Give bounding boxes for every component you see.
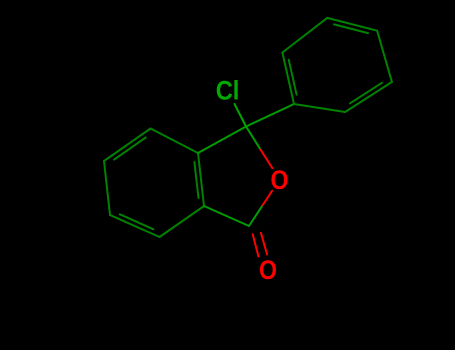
- benzo ring bond C7-C7a: [160, 206, 205, 237]
- phenyl ring bond P5-P0: [294, 104, 345, 112]
- benzo ring double bond inner line C4=C5: [114, 138, 146, 160]
- lactone bond C7a-C1: [204, 206, 249, 226]
- phenyl ring double bond inner line P2-P3: [334, 24, 368, 33]
- carbonyl C1=O double bond line 1: [253, 234, 259, 256]
- bond O2-C1 red half: [262, 191, 272, 207]
- benzo ring bond C3a-C4: [151, 129, 199, 154]
- phenyl ring double bond inner line P0-P1: [289, 60, 297, 95]
- svg-text:O: O: [271, 165, 289, 195]
- benzo ring bond C6-C7: [110, 215, 160, 237]
- carbonyl C1=O double bond line 2: [261, 233, 267, 255]
- benzo ring bond C4-C5: [104, 129, 151, 162]
- benzo ring bond C5-C6: [104, 161, 110, 215]
- bond C3-Cl: [235, 104, 247, 127]
- benzo ring double bond inner line C6=C7: [120, 214, 154, 229]
- phenyl ring double bond inner line P4-P5: [350, 83, 382, 104]
- lactone bond C3a-C3: [198, 127, 246, 154]
- bond C3-phenyl ipso: [246, 104, 294, 127]
- benzo ring double bond inner line C3a=C7a: [194, 162, 198, 198]
- bond C3-O2 red half: [261, 150, 273, 168]
- svg-text:Cl: Cl: [216, 75, 240, 105]
- phenyl ring bond P0-P1: [282, 53, 294, 105]
- phenyl ring bond P4-P5: [345, 82, 392, 112]
- benzo ring fused bond C3a-C7a: [198, 153, 204, 206]
- svg-text:O: O: [259, 255, 277, 285]
- phenyl ring bond P1-P2: [282, 18, 327, 53]
- bond C3-O2 green half: [246, 127, 261, 150]
- phenyl ring bond P2-P3: [327, 18, 377, 31]
- phenyl ring bond P3-P4: [377, 31, 392, 82]
- bond O2-C1 green half: [249, 207, 262, 227]
